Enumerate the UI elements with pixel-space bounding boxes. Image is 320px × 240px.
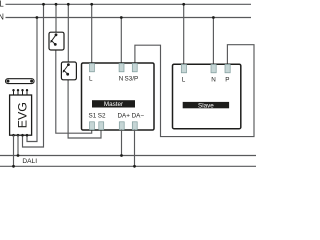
junction dot L/switch feed	[55, 3, 58, 6]
wire DA- to DALI line 2	[134, 130, 136, 167]
wire L to switch S2	[67, 4, 69, 64]
wire DA+ to DALI line 1	[121, 130, 123, 156]
terminal S3/P (Master)	[132, 63, 137, 71]
svg-text:DALI: DALI	[22, 158, 37, 165]
wire EVG DA to DALI line 1	[13, 135, 15, 166]
EVG lamp pins	[14, 90, 28, 95]
wire N to Master N	[120, 18, 122, 65]
wire L to Slave L	[183, 4, 185, 64]
junction dot N/Slave	[212, 16, 215, 19]
lamp (fluorescent tube)	[6, 79, 35, 84]
wire L to EVG (via loop)	[23, 4, 44, 147]
Slave unit box	[173, 64, 241, 129]
DALI bus line 1	[0, 155, 256, 157]
junction dot EVG/DALI1	[17, 154, 20, 157]
terminal P (Slave)	[225, 64, 230, 72]
svg-text:DA+: DA+	[118, 113, 131, 120]
wire N to EVG (via loop)	[27, 18, 37, 142]
junction dot N/EVG	[36, 16, 39, 19]
junction dot L/switch1 feed	[42, 3, 45, 6]
svg-text:L: L	[0, 0, 4, 9]
svg-text:Slave: Slave	[198, 102, 214, 109]
svg-text:N: N	[119, 76, 124, 83]
junction dot L/switch2 feed	[67, 3, 70, 6]
svg-text:EVG: EVG	[15, 102, 29, 128]
terminal L (Slave)	[181, 64, 186, 72]
EVG ballast box	[10, 95, 32, 135]
wire L to Master L	[91, 4, 93, 64]
junction dot L/Master	[90, 3, 93, 6]
Master label bar	[92, 100, 135, 107]
wire EVG DA to DALI line 2	[17, 135, 19, 155]
Slave label bar	[183, 102, 229, 108]
svg-text:S3/P: S3/P	[125, 76, 139, 83]
terminal L (Master)	[90, 63, 95, 71]
junction dot DA-/DALI2	[133, 165, 136, 168]
wire L bus	[6, 3, 252, 5]
svg-text:S2: S2	[98, 113, 106, 120]
wire switch1 to terminal S1	[56, 44, 92, 133]
junction dot EVG/DALI2	[12, 165, 15, 168]
terminal DA- (Master)	[132, 122, 137, 130]
svg-text:L: L	[182, 77, 186, 84]
terminal N (Slave)	[211, 64, 216, 72]
EVG bottom terminal dots	[12, 134, 28, 137]
svg-text:DA−: DA−	[132, 113, 145, 120]
svg-text:L: L	[89, 76, 93, 83]
svg-text:Master: Master	[104, 101, 123, 108]
svg-text:P: P	[225, 77, 229, 84]
terminal S2 (Master)	[99, 122, 104, 130]
svg-text:S1: S1	[89, 113, 97, 120]
DALI bus line 2	[0, 165, 256, 167]
switch S1 (push-button)	[49, 32, 64, 50]
svg-text:N: N	[0, 12, 4, 21]
switch S2 (push-button)	[61, 62, 76, 80]
junction dot L/Slave	[182, 3, 185, 6]
Master control unit box	[82, 63, 155, 130]
wire L to switch S1	[55, 4, 57, 34]
wire Master S3/P to Slave P (routed loop)	[135, 45, 254, 137]
junction dot DA+/DALI1	[120, 154, 123, 157]
terminal N (Master)	[119, 63, 124, 71]
terminal S1 (Master)	[90, 122, 95, 130]
wire N bus	[6, 17, 252, 19]
wire switch2 to terminal S2	[68, 75, 101, 138]
svg-text:N: N	[211, 77, 216, 84]
terminal DA+ (Master)	[119, 122, 124, 130]
wire N to Slave N	[212, 18, 214, 65]
junction dot N/Master	[120, 16, 123, 19]
